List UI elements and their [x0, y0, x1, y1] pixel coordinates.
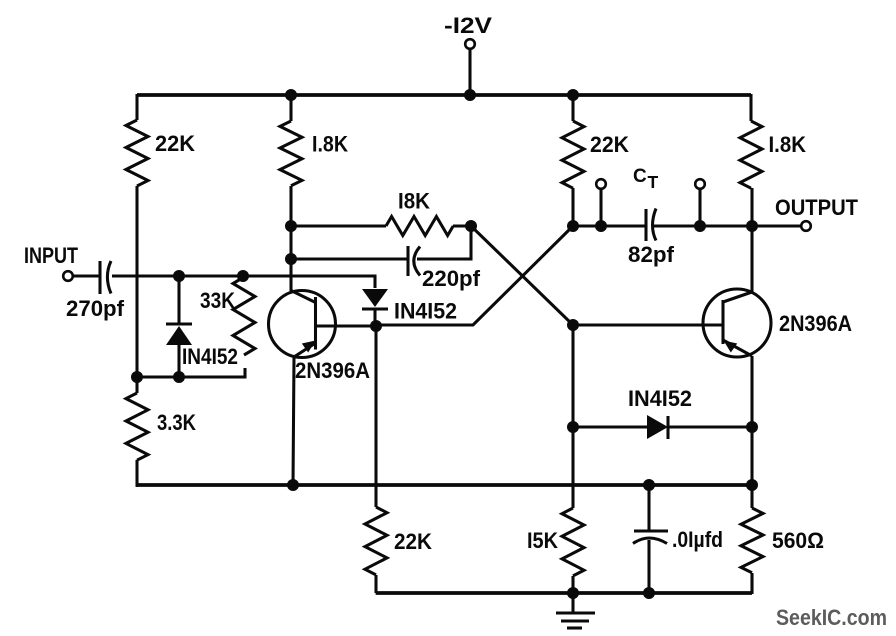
- svg-text:33K: 33K: [200, 288, 235, 313]
- svg-text:-I2V: -I2V: [444, 13, 492, 38]
- svg-text:OUTPUT: OUTPUT: [775, 195, 859, 220]
- svg-text:INPUT: INPUT: [24, 243, 78, 268]
- svg-text:2N396A: 2N396A: [779, 311, 852, 336]
- svg-text:.0Iµfd: .0Iµfd: [672, 527, 723, 552]
- svg-text:I5K: I5K: [527, 528, 558, 553]
- svg-text:SeekIC.com: SeekIC.com: [776, 605, 887, 630]
- svg-text:T: T: [648, 172, 659, 192]
- svg-text:I8K: I8K: [398, 189, 430, 214]
- svg-text:I.8K: I.8K: [312, 132, 348, 157]
- svg-text:220pf: 220pf: [422, 266, 481, 291]
- svg-text:IN4I52: IN4I52: [628, 386, 692, 411]
- svg-text:2N396A: 2N396A: [295, 358, 370, 383]
- svg-text:3.3K: 3.3K: [157, 410, 196, 435]
- svg-text:I.8K: I.8K: [769, 132, 807, 157]
- svg-text:22K: 22K: [155, 131, 195, 156]
- svg-text:IN4I52: IN4I52: [394, 299, 457, 324]
- svg-text:C: C: [633, 166, 647, 187]
- svg-text:22K: 22K: [394, 529, 432, 554]
- svg-text:IN4I52: IN4I52: [182, 344, 238, 369]
- svg-text:270pf: 270pf: [66, 296, 125, 321]
- svg-text:560Ω: 560Ω: [772, 528, 824, 553]
- svg-text:22K: 22K: [590, 132, 629, 157]
- svg-text:82pf: 82pf: [628, 242, 675, 267]
